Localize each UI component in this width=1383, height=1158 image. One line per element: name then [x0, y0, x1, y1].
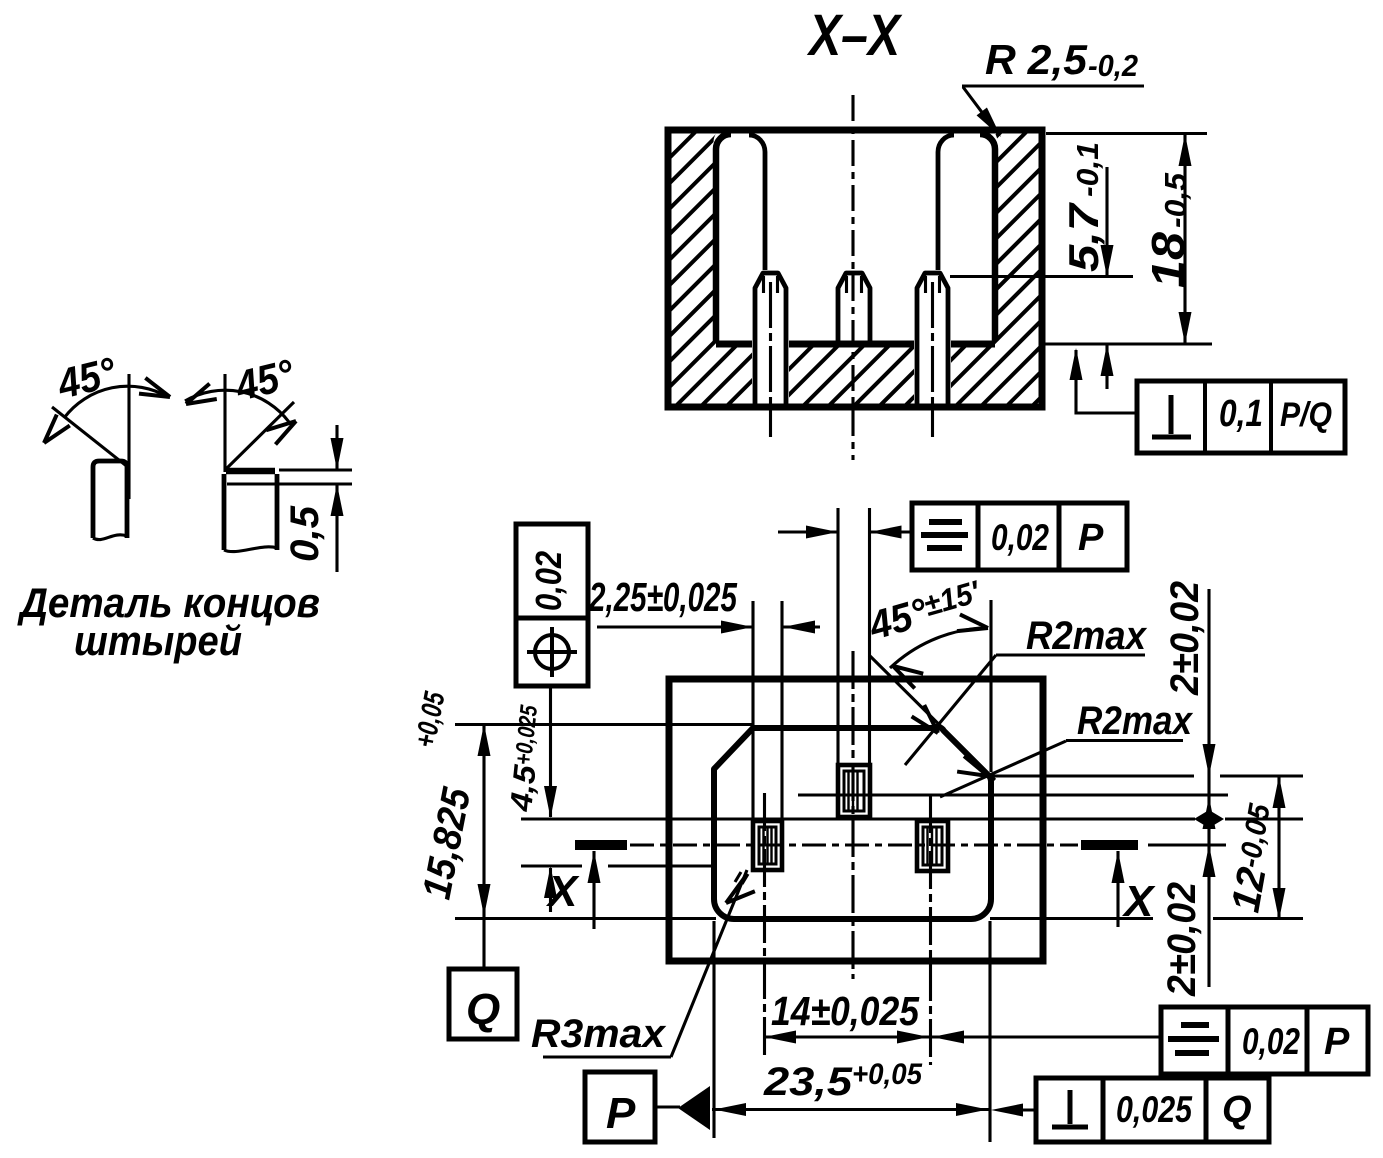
svg-text:-0,1: -0,1: [1070, 142, 1105, 197]
svg-text:R2max: R2max: [1077, 699, 1194, 743]
svg-text:Q: Q: [1222, 1089, 1252, 1131]
svg-text:-0,5: -0,5: [1158, 172, 1193, 228]
svg-text:P/Q: P/Q: [1280, 396, 1332, 434]
svg-text:X–X: X–X: [807, 3, 903, 68]
svg-text:P: P: [606, 1089, 636, 1138]
svg-text:P: P: [1078, 517, 1104, 559]
svg-text:R3max: R3max: [531, 1012, 667, 1056]
svg-text:R 2,5: R 2,5: [985, 36, 1088, 83]
svg-text:0,02: 0,02: [528, 551, 569, 611]
svg-text:0,1: 0,1: [1219, 393, 1263, 435]
svg-text:0,02: 0,02: [1242, 1021, 1300, 1062]
svg-text:Q: Q: [466, 985, 500, 1034]
svg-text:-0,2: -0,2: [1088, 48, 1138, 83]
svg-text:R2max: R2max: [1026, 614, 1148, 658]
svg-text:2±0,02: 2±0,02: [1163, 581, 1207, 696]
svg-text:P: P: [1324, 1021, 1350, 1063]
svg-text:штырей: штырей: [74, 617, 242, 664]
svg-text:18: 18: [1142, 232, 1194, 288]
svg-text:2,25±0,025: 2,25±0,025: [588, 574, 738, 620]
svg-text:14±0,025: 14±0,025: [771, 988, 920, 1034]
svg-text:0,5: 0,5: [283, 505, 327, 562]
svg-text:0,025: 0,025: [1116, 1089, 1193, 1130]
svg-text:5,7: 5,7: [1060, 202, 1107, 272]
svg-text:0,02: 0,02: [991, 517, 1049, 558]
svg-text:X: X: [1121, 877, 1156, 926]
svg-text:2±0,02: 2±0,02: [1160, 882, 1204, 997]
